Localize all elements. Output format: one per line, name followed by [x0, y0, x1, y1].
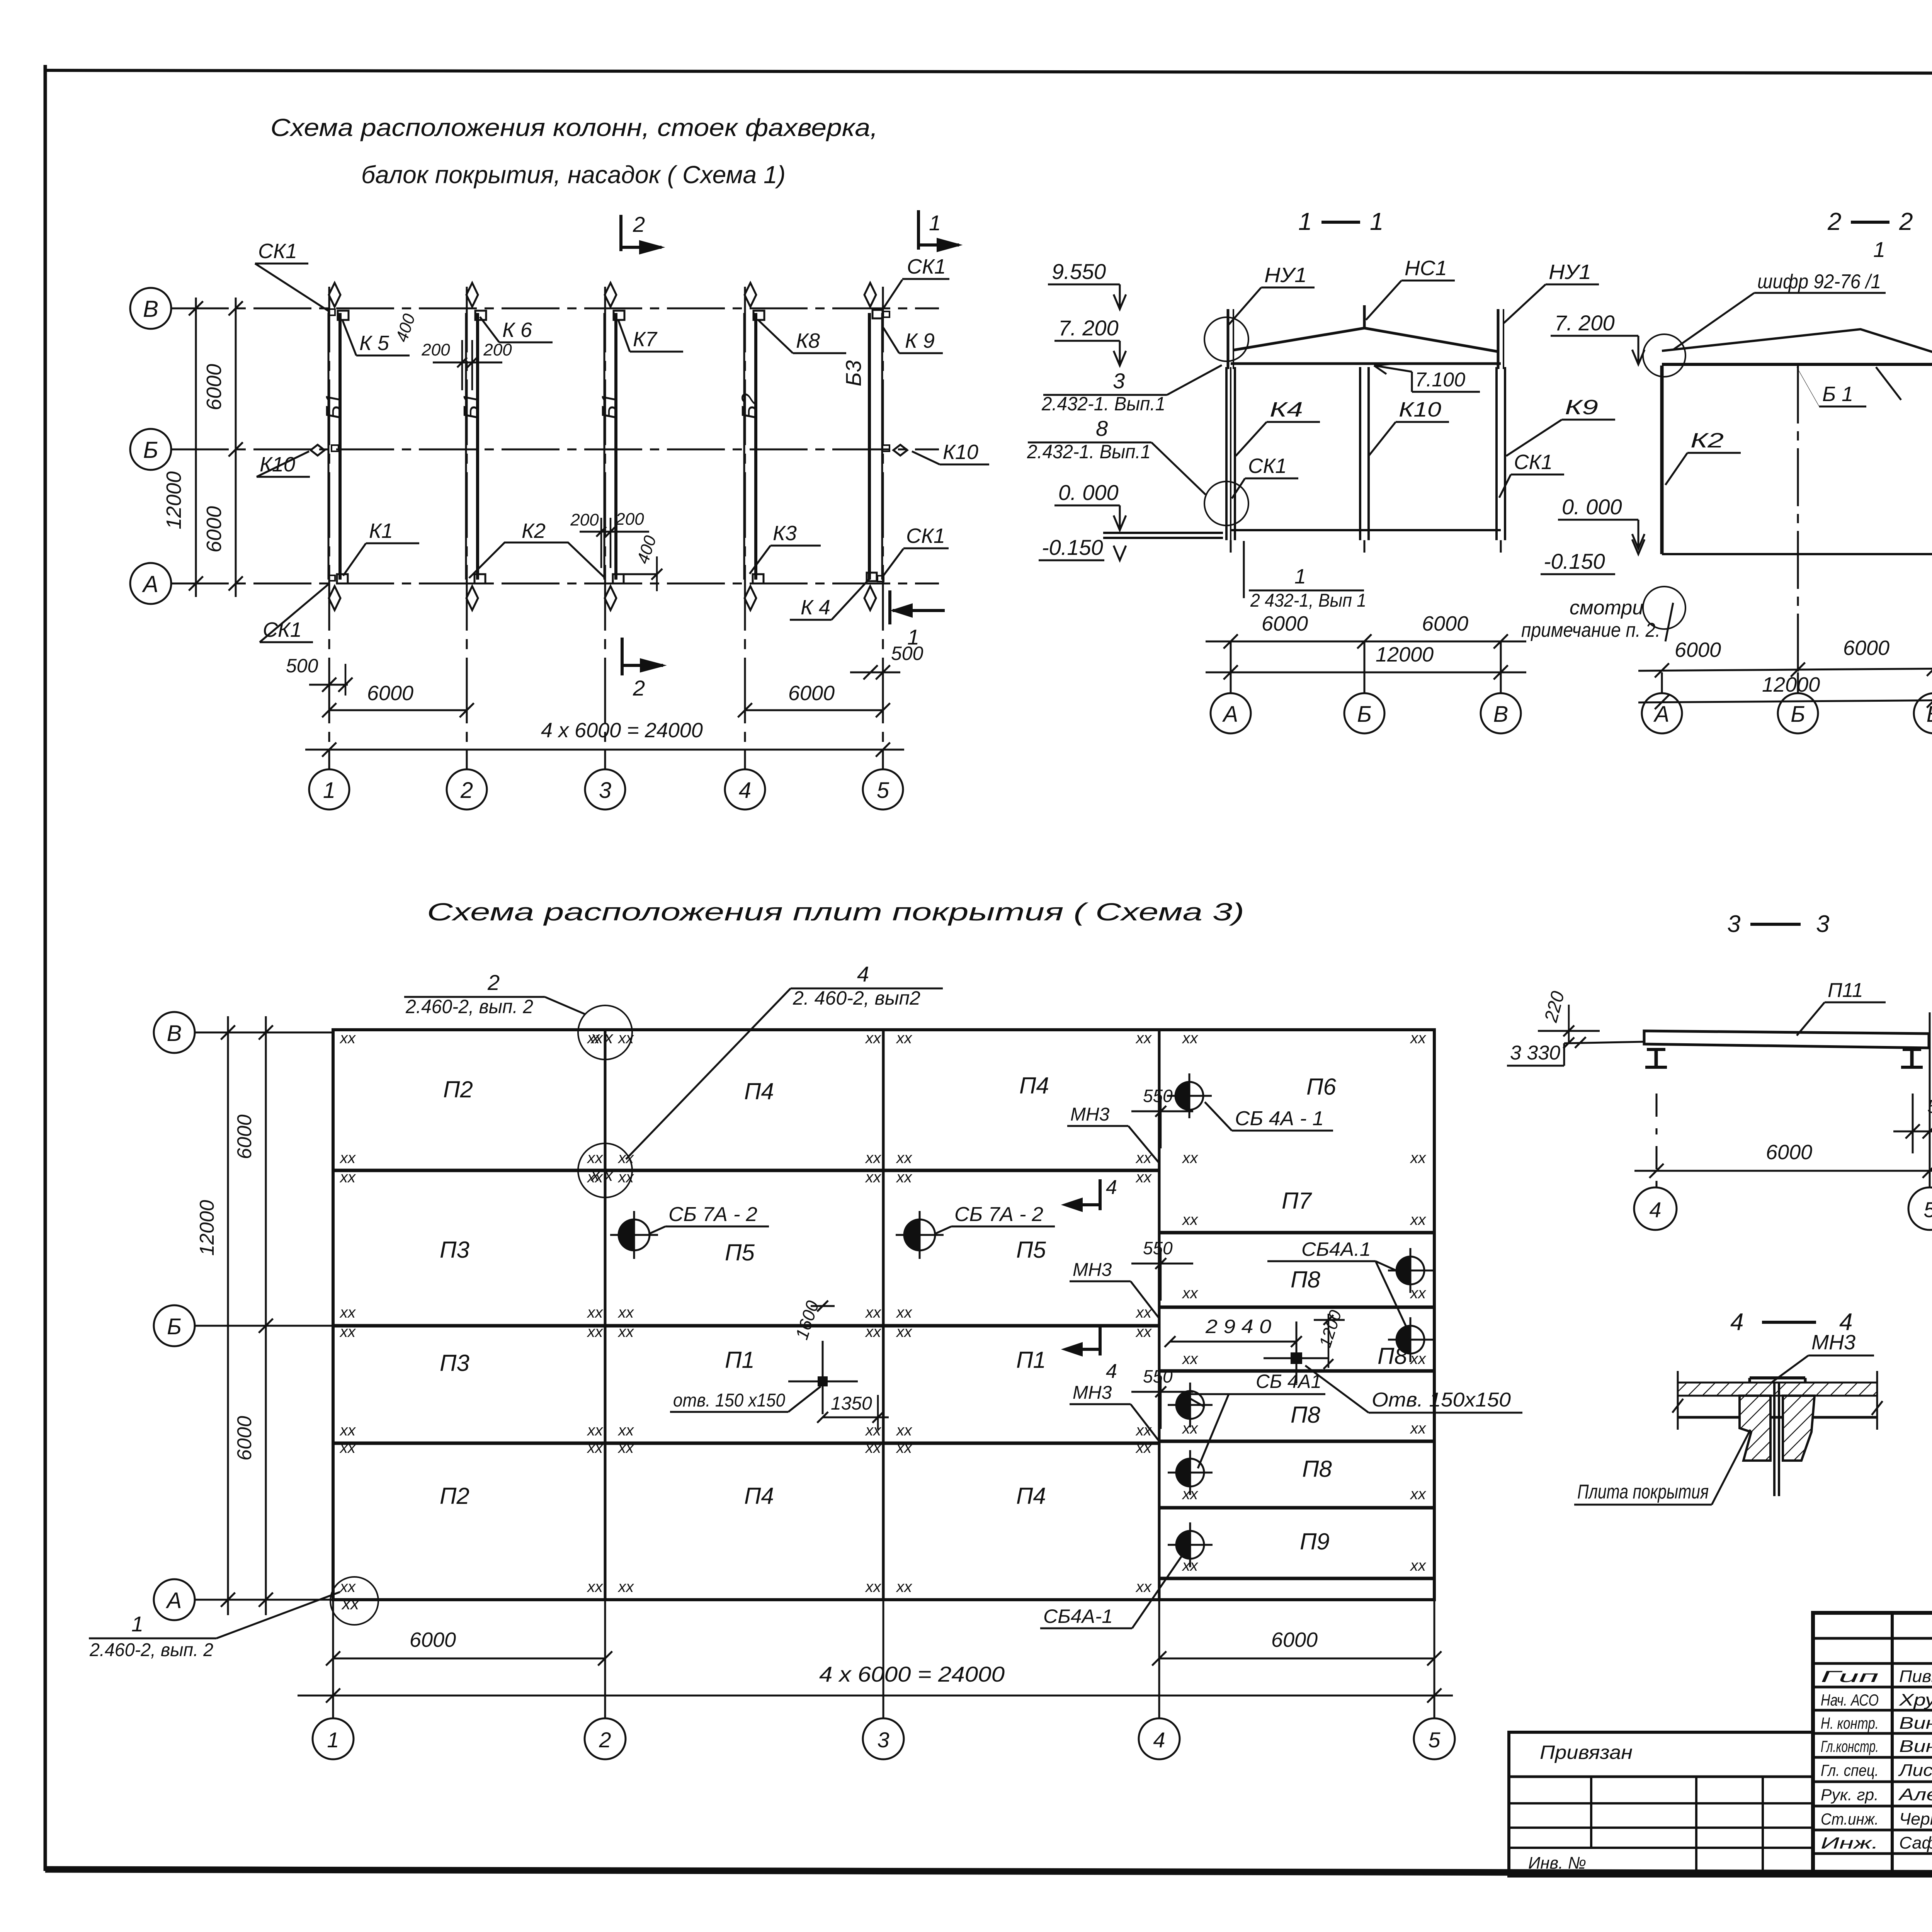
svg-text:К 9: К 9 [905, 329, 935, 352]
svg-text:хх: хх [865, 1439, 882, 1456]
svg-text:200: 200 [615, 510, 644, 529]
svg-text:6000: 6000 [367, 682, 413, 705]
svg-text:Алехова: Алехова [1898, 1785, 1932, 1804]
column square on axis В col 2 [475, 311, 486, 320]
svg-text:П5: П5 [1016, 1237, 1046, 1263]
svg-text:хх: хх [1410, 1211, 1427, 1228]
svg-text:550: 550 [1143, 1086, 1173, 1106]
svg-text:4: 4 [1730, 1309, 1743, 1335]
svg-text:5: 5 [1923, 1197, 1932, 1222]
svg-text:6000: 6000 [233, 1114, 256, 1159]
СК1 square top col 5 [883, 311, 889, 317]
svg-text:6000: 6000 [788, 682, 835, 705]
svg-text:200: 200 [483, 340, 512, 359]
beam Б1 double line (schema1) [604, 313, 605, 580]
section mark 2 top [619, 215, 622, 251]
svg-text:отв. 150 х150: отв. 150 х150 [673, 1390, 785, 1411]
svg-text:хх: хх [1182, 1350, 1199, 1367]
svg-text:П4: П4 [744, 1078, 774, 1104]
svg-text:Инж.: Инж. [1821, 1834, 1879, 1852]
svg-text:К10: К10 [1399, 398, 1441, 421]
svg-text:2.432-1. Вып.1: 2.432-1. Вып.1 [1041, 393, 1165, 415]
svg-text:хх: хх [865, 1150, 882, 1167]
СК1 square top col 1 [328, 309, 335, 315]
svg-text:П3: П3 [440, 1350, 469, 1376]
svg-text:П3: П3 [440, 1237, 469, 1263]
svg-text:Б: Б [167, 1314, 182, 1339]
svg-text:200: 200 [570, 510, 599, 529]
svg-text:550: 550 [1143, 1238, 1173, 1258]
callout circle col2/В (schema3) [578, 1005, 632, 1060]
grid circle 5 (schema1) [863, 769, 903, 810]
plate row Б (schema3) [333, 1324, 1159, 1328]
slab top hatched band (4-4) [1678, 1383, 1877, 1396]
svg-text:хх: хх [1182, 1285, 1199, 1302]
svg-text:7. 200: 7. 200 [1554, 311, 1615, 335]
joint double line (4-4) [1773, 1382, 1776, 1496]
svg-text:хх: хх [896, 1422, 913, 1439]
svg-text:200: 200 [421, 340, 450, 359]
axis circle В (schema1) [130, 288, 171, 329]
opening mark отв.150х150 right (schema3) [1291, 1352, 1302, 1364]
beam Б3 double line col5 (schema1) [868, 313, 871, 580]
svg-text:Сафонова: Сафонова [1899, 1833, 1932, 1852]
ground line (2-2) [1662, 553, 1932, 555]
roof beam bottom chord (2-2) [1662, 363, 1932, 366]
grid line below plan 4 (schema3) [1158, 1600, 1160, 1719]
svg-text:СБ 4А1: СБ 4А1 [1256, 1371, 1321, 1392]
svg-text:СК1: СК1 [907, 255, 946, 278]
anchor СБ4А-1 #2 (schema3) [1396, 1257, 1410, 1284]
dim chain 12000 (schema3) [227, 1016, 229, 1615]
svg-text:К7: К7 [633, 328, 658, 351]
grid circle 5 (schema3) [1414, 1718, 1455, 1759]
svg-text:А: А [1653, 702, 1670, 727]
svg-text:В: В [1493, 702, 1509, 727]
fachwerk diamond below А col 1 [329, 586, 340, 610]
column inner line А (1-1) [1230, 367, 1231, 540]
axis line Б (schema3) [195, 1325, 333, 1327]
svg-text:хх: хх [1135, 1030, 1152, 1047]
svg-text:12000: 12000 [162, 471, 185, 529]
svg-text:шифр 92-76 /1: шифр 92-76 /1 [1757, 270, 1881, 293]
dim chain 12000 (schema1) [195, 298, 197, 597]
svg-text:МН3: МН3 [1070, 1104, 1110, 1125]
svg-text:6000: 6000 [202, 364, 226, 410]
svg-text:хх: хх [1410, 1285, 1427, 1302]
grid line 3 (schema3) [882, 1030, 885, 1600]
column square on axis В col 1 [338, 311, 349, 320]
svg-text:хх: хх [617, 1578, 634, 1595]
svg-text:П8: П8 [1302, 1456, 1332, 1482]
grid circle 2 (schema3) [585, 1718, 626, 1759]
svg-text:3 330: 3 330 [1510, 1042, 1560, 1064]
column (1-1) axis А [1225, 367, 1228, 540]
svg-text:Плита покрытия: Плита покрытия [1577, 1481, 1709, 1503]
svg-text:хх: хх [587, 1323, 604, 1340]
callout circle col1/А (schema3) [330, 1577, 378, 1625]
anchor СБ 7А-2 right (schema3) [904, 1219, 920, 1250]
plan outline (schema3) [333, 1030, 1434, 1600]
title block row line y=4674 [1813, 1805, 1932, 1808]
svg-text:хх: хх [339, 1323, 356, 1340]
grid circle 3 (schema3) [863, 1718, 904, 1759]
svg-text:НУ1: НУ1 [1549, 260, 1591, 284]
svg-text:1: 1 [1873, 237, 1885, 262]
opening mark отв.150х150 left (schema3) [818, 1376, 828, 1386]
svg-text:хх: хх [617, 1439, 634, 1456]
fachwerk diamond below А col 3 [605, 586, 616, 610]
grid line below plan 5 (schema3) [1434, 1600, 1435, 1719]
svg-text:П4: П4 [1019, 1073, 1049, 1099]
СК1 square bottom col 5 [878, 576, 884, 582]
fachwerk diamond above В col 4 [745, 283, 756, 307]
title block col line names [1891, 1613, 1894, 1876]
svg-text:хх: хх [587, 1150, 604, 1167]
svg-text:К2: К2 [522, 519, 546, 543]
grid line 2 (schema1) [466, 287, 468, 769]
axis circle Б (2-2) [1797, 672, 1799, 694]
fachwerk diamond below А col 2 [466, 586, 478, 610]
svg-text:Винклер: Винклер [1899, 1714, 1932, 1733]
rib left hatched (4-4) [1740, 1396, 1770, 1461]
svg-text:2: 2 [460, 778, 473, 803]
svg-text:7.100: 7.100 [1415, 369, 1465, 391]
svg-text:хх: хх [339, 1439, 356, 1456]
section mark 4 upper (schema3) [1099, 1179, 1102, 1210]
svg-text:Н. контр.: Н. контр. [1821, 1714, 1879, 1732]
axis circle 4 (3-3) [1634, 1187, 1677, 1230]
svg-text:2.432-1. Вып.1: 2.432-1. Вып.1 [1027, 441, 1151, 463]
svg-text:Хрупало: Хрупало [1899, 1690, 1932, 1709]
svg-text:Б1: Б1 [597, 393, 621, 419]
svg-text:П9: П9 [1300, 1529, 1330, 1554]
svg-text:6000: 6000 [1271, 1628, 1318, 1651]
svg-text:2.460-2, вып. 2: 2.460-2, вып. 2 [405, 996, 533, 1017]
svg-text:Гип: Гип [1821, 1667, 1879, 1685]
К10 square+diamond on Б col 5 [883, 445, 889, 451]
svg-text:Б1: Б1 [459, 393, 483, 419]
svg-text:2: 2 [633, 212, 645, 236]
svg-text:Гл. спец.: Гл. спец. [1821, 1761, 1879, 1779]
svg-text:хх: хх [896, 1578, 913, 1595]
privyazan col line 1 [1590, 1777, 1592, 1848]
svg-text:4: 4 [1153, 1728, 1165, 1752]
svg-text:2: 2 [487, 970, 500, 995]
privyazan col line 3 [1762, 1777, 1764, 1876]
grid line below plan 3 (schema3) [883, 1600, 884, 1719]
callout circle col2/row1 (schema3) [578, 1143, 632, 1197]
axis circle А (1-1) [1230, 641, 1232, 694]
svg-text:хх: хх [587, 1304, 604, 1321]
slab П11 (3-3) [1644, 1031, 1929, 1048]
svg-text:3: 3 [1816, 911, 1829, 937]
svg-text:Пивторак: Пивторак [1899, 1667, 1932, 1686]
svg-text:4: 4 [1649, 1197, 1661, 1222]
svg-text:смотри: смотри [1570, 597, 1643, 619]
axis line В (schema3) [195, 1032, 332, 1034]
svg-text:А: А [142, 571, 158, 597]
svg-text:хх: хх [1182, 1030, 1199, 1047]
svg-text:хх: хх [1410, 1486, 1427, 1503]
roof beam bottom chord (1-1) [1231, 362, 1501, 365]
svg-text:хх: хх [1182, 1211, 1199, 1228]
grid line 1 (schema1) [328, 287, 330, 769]
edge tick right (4-4) [1876, 1371, 1878, 1430]
svg-text:хх: хх [1135, 1578, 1152, 1595]
axis line А (schema1) [171, 583, 939, 585]
fachwerk diamond below А col 4 [745, 586, 756, 610]
svg-text:примечание п. 2.: примечание п. 2. [1521, 619, 1660, 641]
title block row line y=4611 [1813, 1781, 1932, 1783]
svg-text:-0.150: -0.150 [1042, 535, 1103, 560]
axis circle 5 (3-3) [1908, 1187, 1932, 1230]
svg-text:хх: хх [1135, 1323, 1152, 1340]
svg-text:хх: хх [896, 1439, 913, 1456]
grid line 5 (schema1) [882, 287, 884, 769]
svg-text:хх: хх [341, 1594, 360, 1613]
svg-text:хх: хх [896, 1323, 913, 1340]
svg-text:хх: хх [1410, 1030, 1427, 1047]
svg-text:6000: 6000 [410, 1628, 456, 1651]
svg-text:Отв. 150х150: Отв. 150х150 [1372, 1389, 1511, 1411]
I-beam right (3-3) [1910, 1048, 1914, 1067]
svg-text:1: 1 [1294, 565, 1306, 588]
roof beam top chord (1-1) [1233, 328, 1498, 352]
svg-text:П8: П8 [1291, 1267, 1320, 1293]
column square on axis А col 4 [753, 574, 764, 583]
svg-text:К10: К10 [943, 440, 978, 464]
svg-text:1: 1 [323, 778, 335, 803]
svg-text:А: А [166, 1588, 182, 1613]
НУ1 stub column left (1-1) [1227, 309, 1230, 369]
top plate МН3 (4-4) [1750, 1376, 1805, 1379]
anchor СБ4А-1 #1 (schema3) [1175, 1082, 1189, 1110]
svg-text:8: 8 [1096, 416, 1108, 440]
svg-text:6000: 6000 [1675, 638, 1721, 662]
svg-text:СК1: СК1 [1514, 451, 1553, 474]
svg-text:6000: 6000 [202, 506, 226, 553]
svg-text:2 432-1, Вып 1: 2 432-1, Вып 1 [1250, 590, 1366, 611]
svg-text:хх: хх [896, 1169, 913, 1186]
grid circle 4 (schema3) [1139, 1718, 1180, 1759]
svg-text:1350: 1350 [831, 1393, 872, 1414]
privyazan table outer [1509, 1732, 1813, 1876]
title block row line y=4548 [1813, 1756, 1932, 1759]
svg-text:СК1: СК1 [258, 240, 297, 263]
svg-text:Б 1: Б 1 [1822, 383, 1853, 406]
column (1-1) axis Б [1359, 367, 1361, 540]
plate row 1 (schema3) [333, 1169, 1159, 1172]
svg-text:4: 4 [1106, 1176, 1117, 1199]
svg-text:хх: хх [1410, 1420, 1427, 1437]
svg-text:Б3: Б3 [841, 360, 866, 386]
right strip row y=3730 (schema3) [1159, 1440, 1434, 1443]
axis circle Б (1-1) [1364, 641, 1366, 694]
sheet frame left border [44, 65, 47, 1871]
title block row line y=4366 [1813, 1686, 1932, 1689]
svg-text:хх: хх [339, 1169, 356, 1186]
axis line 4 (3-3) [1656, 1094, 1658, 1187]
svg-text:1: 1 [1370, 207, 1384, 235]
svg-text:хх: хх [587, 1422, 604, 1439]
svg-text:5: 5 [1428, 1728, 1440, 1752]
svg-text:В: В [167, 1021, 182, 1046]
svg-text:хх: хх [896, 1150, 913, 1167]
svg-text:0. 000: 0. 000 [1058, 480, 1119, 505]
column К9 square on axis В col 5 [872, 310, 883, 318]
svg-text:2: 2 [1827, 207, 1842, 235]
axis line А (schema3) [195, 1599, 333, 1601]
svg-text:х х: х х [590, 1166, 614, 1185]
svg-text:хх: хх [587, 1439, 604, 1456]
title block row line y=4797 [1813, 1852, 1932, 1855]
anchor СБ4А-1 #3 (schema3) [1396, 1326, 1410, 1354]
title block row line y=4305 [1813, 1662, 1932, 1665]
svg-text:Рук. гр.: Рук. гр. [1821, 1786, 1879, 1804]
svg-text:2 9 4 0: 2 9 4 0 [1205, 1316, 1271, 1337]
callout circle bottom А (2-2) [1643, 587, 1685, 629]
svg-text:МН3: МН3 [1811, 1331, 1855, 1354]
svg-text:6000: 6000 [1843, 636, 1889, 660]
ground line (1-1) [1231, 529, 1501, 531]
svg-text:хх: хх [1182, 1150, 1199, 1167]
svg-text:СБ 7А - 2: СБ 7А - 2 [668, 1203, 757, 1226]
svg-text:х х: х х [590, 1028, 614, 1047]
column square on axis В col 3 [614, 311, 624, 320]
svg-text:500: 500 [891, 643, 923, 664]
grid line 4 (schema1) [744, 287, 746, 769]
privyazan col line 2 [1695, 1777, 1697, 1876]
svg-text:500: 500 [286, 655, 318, 677]
svg-text:П11: П11 [1828, 979, 1863, 1002]
svg-text:балок покрытия, насадок ( С: балок покрытия, насадок ( Схема 1) [361, 161, 786, 189]
svg-text:К1: К1 [369, 519, 393, 543]
svg-text:4 х 6000 = 24000: 4 х 6000 = 24000 [541, 719, 703, 742]
anchor СБ4А-1 #5 (schema3) [1176, 1459, 1190, 1486]
svg-text:П4: П4 [744, 1483, 774, 1509]
svg-text:Б: Б [1357, 702, 1372, 727]
fachwerk diamond below А col 5 [864, 586, 876, 610]
callout circle top А (2-2) [1643, 334, 1685, 377]
grid circle 4 (schema1) [725, 769, 765, 810]
column square on axis А col 1 [337, 574, 348, 583]
column К4 square on axis А col 5 [867, 573, 877, 581]
axis circle В (schema3) [154, 1012, 195, 1053]
column square on axis А col 3 [613, 574, 624, 583]
svg-text:12000: 12000 [1762, 673, 1820, 696]
НС1 apex stub (1-1) [1363, 305, 1366, 328]
plate fixing xx marks (schema3) [339, 1030, 1427, 1595]
svg-text:3: 3 [599, 778, 611, 803]
svg-text:4: 4 [1106, 1360, 1117, 1383]
title block row line y=4240 [1813, 1637, 1932, 1640]
svg-text:П1: П1 [1016, 1347, 1046, 1373]
title block row line y=4736 [1813, 1829, 1932, 1832]
svg-text:хх: хх [1135, 1169, 1152, 1186]
svg-text:хх: хх [896, 1304, 913, 1321]
axis circle А (schema1) [130, 563, 171, 604]
svg-text:2. 460-2, вып2: 2. 460-2, вып2 [793, 987, 920, 1009]
column К2 (2-2) [1660, 366, 1664, 554]
svg-text:6000: 6000 [1422, 612, 1468, 635]
svg-text:9.550: 9.550 [1052, 259, 1106, 284]
column square on axis В col 4 [753, 311, 764, 320]
dim chain 6000/6000 (schema1) [235, 298, 237, 597]
beam Б2 double line (schema1) [743, 313, 745, 580]
svg-text:хх: хх [339, 1304, 356, 1321]
svg-text:Лисичкин: Лисичкин [1898, 1761, 1932, 1780]
svg-text:П2: П2 [443, 1077, 473, 1102]
К10 square+diamond on Б col 1 [311, 445, 325, 456]
svg-text:П8: П8 [1291, 1402, 1320, 1428]
svg-text:хх: хх [865, 1578, 882, 1595]
svg-text:4: 4 [857, 962, 869, 986]
sheet frame top border [45, 70, 1932, 74]
title block outer box [1813, 1613, 1932, 1876]
axis circle В (1-1) [1500, 641, 1502, 694]
svg-text:СБ4А-1: СБ4А-1 [1043, 1605, 1113, 1627]
axis circle Б (schema3) [154, 1305, 195, 1346]
axis line 5 (3-3) [1912, 1094, 1914, 1153]
svg-text:Б1: Б1 [321, 393, 345, 419]
svg-text:СК1: СК1 [906, 524, 945, 548]
svg-text:СК1: СК1 [1248, 454, 1287, 478]
svg-text:Ст.инж.: Ст.инж. [1821, 1810, 1879, 1828]
axis circle А (2-2) [1661, 672, 1663, 694]
svg-text:Б: Б [143, 437, 158, 463]
svg-text:Инв. №: Инв. № [1528, 1854, 1586, 1872]
svg-text:К2: К2 [1690, 429, 1724, 452]
svg-text:Б: Б [1791, 702, 1805, 727]
svg-text:К 6: К 6 [502, 318, 532, 342]
axis line В (schema1) [171, 308, 939, 310]
svg-text:К4: К4 [1270, 398, 1303, 421]
svg-text:НС1: НС1 [1405, 257, 1447, 280]
privyazan row line 3 [1509, 1827, 1813, 1829]
svg-text:0. 000: 0. 000 [1562, 495, 1622, 519]
svg-text:550: 550 [1143, 1366, 1173, 1386]
grid line 4 (schema3) [1158, 1030, 1161, 1600]
beam Б1 double line (schema1) [328, 313, 330, 580]
edge tick left (4-4) [1677, 1371, 1679, 1430]
svg-text:А: А [1222, 702, 1238, 727]
СК1 square bottom col 1 [329, 575, 335, 581]
svg-text:К3: К3 [773, 522, 797, 545]
svg-text:6000: 6000 [233, 1416, 256, 1461]
svg-text:хх: хх [339, 1150, 356, 1167]
svg-text:7. 200: 7. 200 [1058, 316, 1119, 340]
privyazan row line 4 [1509, 1847, 1813, 1849]
svg-text:Нач. АСО: Нач. АСО [1821, 1691, 1879, 1709]
svg-text:хх: хх [1410, 1557, 1427, 1574]
svg-text:хх: хх [1135, 1439, 1152, 1456]
svg-text:В: В [1927, 702, 1932, 727]
right strip row y=3190 (schema3) [1159, 1231, 1434, 1235]
svg-text:хх: хх [1410, 1150, 1427, 1167]
svg-text:2: 2 [633, 676, 645, 700]
axis circle Б (schema1) [130, 429, 171, 470]
svg-text:3: 3 [877, 1728, 889, 1752]
svg-text:СБ 7А - 2: СБ 7А - 2 [954, 1203, 1043, 1226]
anchor СБ 7А-2 left (schema3) [619, 1219, 634, 1250]
fachwerk diamond above В col 3 [605, 283, 616, 307]
grid circle 3 (schema1) [585, 769, 625, 810]
privyazan header row [1509, 1776, 1813, 1778]
axis line Б (2-2) [1797, 366, 1799, 694]
fachwerk diamond above В col 5 [864, 283, 876, 307]
ground level double line left (1-1) [1103, 532, 1223, 534]
